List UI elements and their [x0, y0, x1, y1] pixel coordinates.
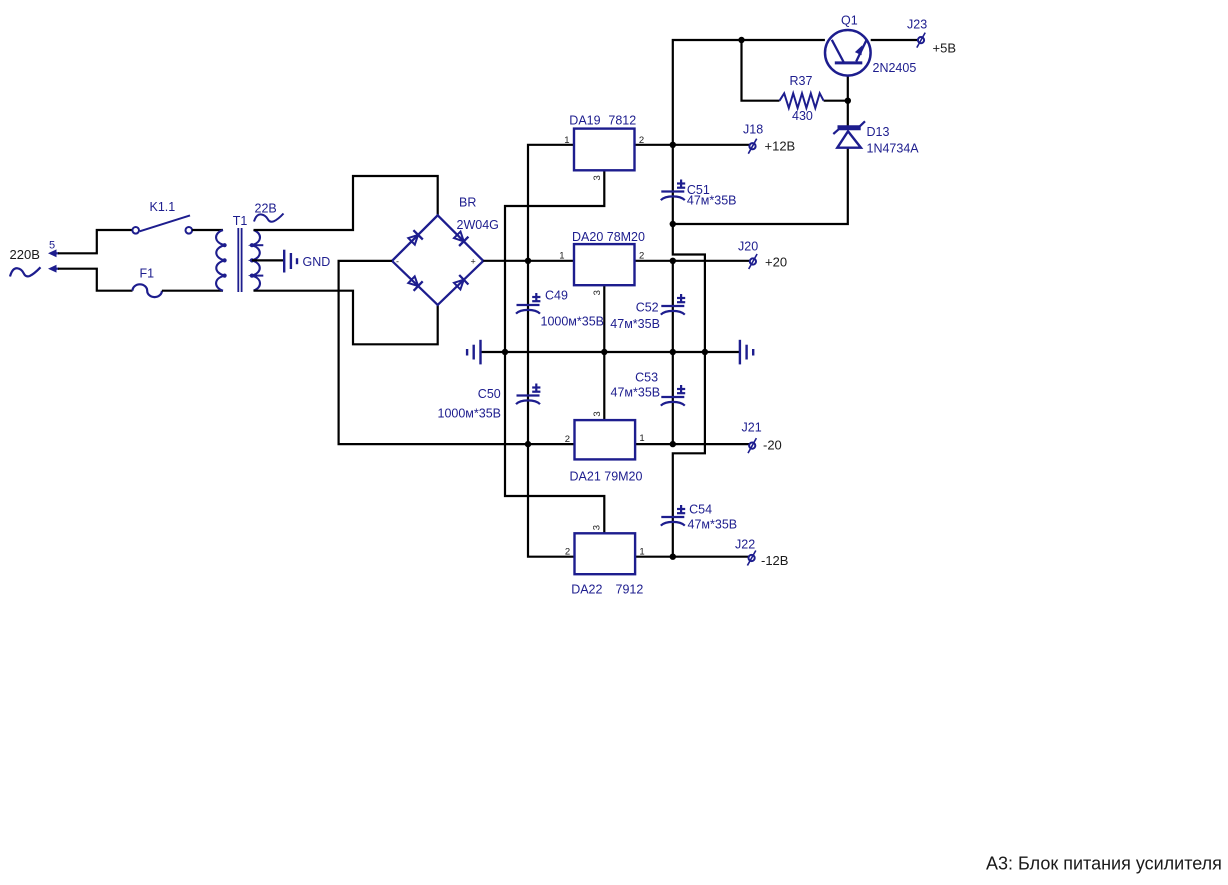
wire Q1 emitter to J23	[871, 39, 918, 41]
zener diode D13	[833, 121, 865, 147]
fuse label F1	[140, 267, 155, 281]
svg-text:47м*35В: 47м*35В	[688, 518, 738, 532]
junction dot DA19 input	[525, 258, 531, 264]
svg-text:1: 1	[564, 135, 569, 146]
regulator DA19 box	[574, 129, 635, 171]
wire DA20/DA21 ground pins	[603, 285, 605, 420]
wire input bottom	[58, 269, 133, 291]
bridge label BR	[459, 196, 476, 210]
svg-text:430: 430	[792, 109, 813, 123]
connector J18	[748, 139, 756, 154]
wire DA19 input branch x528	[528, 145, 575, 557]
svg-text:C49: C49	[545, 289, 568, 303]
DA21 pin 2	[565, 434, 570, 445]
input arrow 2	[48, 265, 59, 273]
capacitor C50	[516, 384, 540, 405]
wire DA20 output to J20	[635, 260, 750, 262]
svg-text:K1.1: K1.1	[150, 200, 176, 214]
regulator DA22 box	[575, 533, 636, 574]
node 220V input label	[10, 247, 40, 262]
connector J23	[917, 33, 925, 48]
svg-text:+12В: +12В	[765, 139, 796, 154]
svg-text:1: 1	[639, 433, 644, 444]
D13 label	[867, 125, 890, 139]
J23 label	[907, 18, 927, 32]
+12V label	[765, 139, 796, 154]
transformer label T1	[233, 214, 248, 228]
svg-text:Q1: Q1	[841, 14, 858, 28]
C49 value	[541, 315, 605, 329]
junction dot -20 line	[670, 441, 676, 447]
wire D13 anode return	[673, 148, 848, 224]
svg-text:1: 1	[559, 251, 564, 262]
bridge diode bottom-left	[408, 276, 422, 290]
connector J22	[747, 551, 755, 566]
svg-text:BR: BR	[459, 196, 476, 210]
ground symbol left	[467, 340, 480, 365]
svg-text:3: 3	[592, 175, 603, 180]
secondary voltage label 22V	[255, 202, 277, 216]
transformer T1 core	[238, 228, 241, 292]
svg-text:D13: D13	[867, 125, 890, 139]
C51 value	[687, 193, 737, 207]
DA22 pin 2	[565, 547, 570, 558]
junction dot ground rail x673	[670, 349, 676, 355]
DA19 pin 2	[639, 135, 644, 146]
Q1 emitter arrow	[855, 45, 862, 55]
pin 5 label	[49, 239, 55, 251]
fuse F1	[133, 284, 162, 297]
svg-text:F1: F1	[140, 267, 155, 281]
svg-text:C50: C50	[478, 387, 501, 401]
svg-text:3: 3	[592, 411, 603, 416]
DA20 pin 1	[559, 251, 564, 262]
J22 label	[735, 538, 755, 552]
DA19 pin 3	[592, 175, 603, 180]
junction dot C51 bottom	[670, 221, 676, 227]
DA21 label	[570, 470, 643, 484]
svg-text:+5В: +5В	[933, 40, 957, 55]
sheet caption	[986, 854, 1222, 874]
C49 label	[545, 289, 568, 303]
svg-text:47м*35В: 47м*35В	[687, 193, 737, 207]
connector J21	[748, 438, 756, 453]
wire fuse to transformer	[162, 290, 223, 292]
svg-text:DA21 79M20: DA21 79M20	[570, 470, 643, 484]
svg-text:J21: J21	[742, 421, 762, 435]
svg-text:47м*35В: 47м*35В	[610, 317, 660, 331]
svg-text:3: 3	[592, 525, 603, 530]
wire switch to transformer	[192, 229, 223, 231]
wire C51 column and GND jog	[673, 145, 705, 557]
input arrow 1	[48, 249, 59, 257]
bridge diode bottom-right	[454, 275, 468, 289]
svg-text:220В: 220В	[10, 247, 40, 262]
svg-text:7812: 7812	[608, 114, 636, 128]
C50 value	[438, 407, 502, 421]
R37 label	[790, 74, 813, 88]
wire secondary top to bridge top	[254, 176, 438, 230]
DA20 label	[572, 230, 645, 244]
DA22 label	[571, 583, 643, 597]
GND label	[303, 255, 331, 269]
+20 label	[765, 255, 787, 270]
svg-text:2W04G: 2W04G	[457, 218, 499, 232]
junction dot +20 line	[670, 258, 676, 264]
wire DA19 output to J18	[635, 144, 750, 146]
svg-text:1000м*35В: 1000м*35В	[438, 407, 502, 421]
connector J20	[749, 254, 757, 269]
svg-text:DA19: DA19	[569, 114, 600, 128]
C54 value	[688, 518, 738, 532]
svg-text:47м*35В: 47м*35В	[611, 386, 661, 400]
capacitor C51	[661, 180, 685, 201]
DA21 pin 1	[639, 433, 644, 444]
transformer tap stubs	[252, 245, 263, 275]
svg-text:А3: Блок питания усилителя: А3: Блок питания усилителя	[986, 854, 1222, 874]
svg-text:C52: C52	[636, 300, 659, 314]
svg-text:+20: +20	[765, 255, 787, 270]
svg-text:C53: C53	[635, 371, 658, 385]
DA20 pin 3	[592, 290, 603, 295]
wire secondary bottom to bridge bottom	[254, 291, 438, 345]
Q1 label	[841, 14, 858, 28]
-12V label	[761, 553, 788, 568]
svg-text:1N4734A: 1N4734A	[867, 142, 920, 156]
capacitor C52	[661, 294, 685, 315]
bridge rectifier BR diamond	[392, 215, 483, 305]
DA22 pin 1	[639, 547, 644, 558]
D13 type 1N4734A	[867, 142, 920, 156]
DA19 pin 1	[564, 135, 569, 146]
svg-text:2: 2	[565, 434, 570, 445]
junction dot DA22 input	[525, 441, 531, 447]
DA22 pin 3	[592, 525, 603, 530]
svg-text:2: 2	[639, 135, 644, 146]
wire Q1 base	[847, 64, 849, 126]
transformer T1 secondary winding	[252, 230, 260, 291]
svg-text:J23: J23	[907, 18, 927, 32]
svg-text:2: 2	[565, 547, 570, 558]
ground rail wire	[481, 351, 740, 353]
transformer T1 primary winding	[216, 230, 225, 291]
AC source tilde	[10, 267, 41, 276]
ground symbol right	[740, 340, 753, 365]
svg-text:1000м*35В: 1000м*35В	[541, 315, 605, 329]
bridge plus sign	[471, 257, 476, 267]
svg-text:DA22: DA22	[571, 583, 602, 597]
svg-text:22В: 22В	[255, 202, 277, 216]
svg-text:-12В: -12В	[761, 553, 788, 568]
bridge diode top-right	[454, 232, 468, 246]
resistor R37	[780, 93, 824, 108]
J20 label	[738, 240, 758, 254]
C52 value	[610, 317, 660, 331]
R37 value 430	[792, 109, 813, 123]
svg-text:2: 2	[639, 251, 644, 262]
svg-text:DA20 78M20: DA20 78M20	[572, 230, 645, 244]
capacitor C49	[516, 293, 540, 314]
DA19 label	[569, 114, 636, 128]
Q1 type 2N2405	[873, 61, 917, 75]
svg-text:-20: -20	[763, 438, 782, 453]
junction dot top rail	[738, 37, 744, 43]
wire R37 drop from rail	[742, 40, 780, 101]
regulator DA20 box	[574, 244, 635, 285]
DA20 pin 2	[639, 251, 644, 262]
wire bridge plus to DA20	[483, 260, 574, 262]
junction dot ground rail x604	[601, 349, 607, 355]
C53 value	[611, 386, 661, 400]
svg-text:T1: T1	[233, 214, 248, 228]
capacitor C53	[661, 385, 685, 406]
svg-text:R37: R37	[790, 74, 813, 88]
C51 label	[687, 183, 710, 197]
svg-text:-: -	[396, 257, 399, 267]
C53 label	[635, 371, 658, 385]
C54 label	[689, 503, 712, 517]
junction dot J18 line	[670, 142, 676, 148]
J21 label	[742, 421, 762, 435]
C52 label	[636, 300, 659, 314]
svg-text:+: +	[471, 257, 476, 267]
wire C52 C53 column	[672, 261, 674, 444]
svg-text:J20: J20	[738, 240, 758, 254]
bridge value 2W04G	[457, 218, 499, 232]
wire center tap to GND	[252, 259, 284, 261]
wire input top	[58, 230, 132, 253]
wire bridge minus rail	[339, 261, 575, 444]
junction dot Q1 base node	[845, 98, 851, 104]
svg-text:3: 3	[592, 290, 603, 295]
switch K1.1	[132, 215, 192, 233]
svg-text:J22: J22	[735, 538, 755, 552]
-20 label	[763, 438, 782, 453]
C50 label	[478, 387, 501, 401]
wire DA21 output to J21	[635, 443, 749, 445]
junction dot ground rail x705	[702, 349, 708, 355]
svg-text:GND: GND	[303, 255, 331, 269]
J18 label	[743, 123, 763, 137]
svg-text:J18: J18	[743, 123, 763, 137]
transistor Q1	[825, 30, 871, 76]
svg-text:C54: C54	[689, 503, 712, 517]
wire DA22 output to J22	[635, 556, 749, 558]
svg-text:1: 1	[639, 547, 644, 558]
ground GND at transformer	[284, 250, 297, 273]
bridge minus sign	[396, 257, 399, 267]
svg-text:7912: 7912	[616, 583, 644, 597]
22V tilde	[254, 214, 284, 222]
junction dot J22 line	[670, 554, 676, 560]
wire R37 to Q1 base node	[824, 100, 848, 102]
+5V label	[933, 40, 957, 55]
svg-text:5: 5	[49, 239, 55, 251]
wire +12V rail to Q1 collector	[673, 40, 825, 145]
regulator DA21 box	[575, 420, 636, 459]
wire DA19/DA22 ground pins x505	[505, 170, 604, 533]
svg-text:2N2405: 2N2405	[873, 61, 917, 75]
DA21 pin 3	[592, 411, 603, 416]
bridge diode top-left	[408, 230, 423, 244]
switch label K1.1	[150, 200, 176, 214]
capacitor C54	[661, 505, 685, 526]
junction dot ground rail x505	[502, 349, 508, 355]
transformer winding junction dots	[223, 243, 254, 278]
